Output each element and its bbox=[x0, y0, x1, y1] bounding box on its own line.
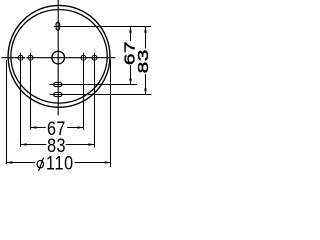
svg-text:83: 83 bbox=[135, 49, 151, 73]
extension line from right-inner hole down to 67 dim bbox=[83, 61, 85, 130]
top slot centerline dash + extension line to right dims bbox=[54, 26, 151, 28]
hole left-outer with tick bbox=[18, 55, 23, 60]
arrow 83 right bottom (down) bbox=[144, 89, 147, 95]
arrow 67 bottom left bbox=[31, 126, 37, 129]
dim line 83 right (vertical) bbox=[145, 27, 147, 95]
outer circle (plate φ110) bbox=[8, 5, 110, 107]
hole right-outer with tick bbox=[92, 55, 97, 60]
bottom slot 2 bbox=[54, 92, 62, 96]
hole right-inner with tick bbox=[81, 55, 86, 60]
arrow 83 bottom right bbox=[89, 143, 95, 146]
bottom slot 1 bbox=[54, 82, 62, 86]
arrow 67 right top (up) bbox=[129, 27, 132, 33]
hole left-inner with tick bbox=[28, 55, 33, 60]
arrow φ110 bottom right bbox=[105, 161, 111, 164]
φ symbol of φ110 (drawn) bbox=[37, 158, 43, 171]
inner circle bbox=[11, 10, 107, 104]
arrow φ110 bottom left bbox=[7, 161, 13, 164]
dim line 67 right (vertical) bbox=[130, 27, 132, 85]
extension line from left-inner hole down to 67 dim bbox=[30, 61, 32, 130]
center circle bbox=[52, 51, 65, 64]
extension line left edge of circle down to φ110 dim bbox=[6, 60, 8, 164]
extension line from left-outer hole down to 83 dim bbox=[20, 61, 22, 148]
dim line 67 bottom bbox=[31, 127, 84, 129]
arrow 67 right bottom (down) bbox=[129, 79, 132, 85]
arrow 67 bottom right bbox=[78, 126, 84, 129]
extension line from right-outer hole down to 83 dim bbox=[94, 61, 96, 148]
bottom slot 2 centerline dash + extension to right bbox=[50, 94, 152, 96]
extension line right edge of circle down to φ110 dim bbox=[110, 60, 112, 167]
arrow 83 bottom left bbox=[21, 143, 27, 146]
svg-text:110: 110 bbox=[46, 152, 74, 173]
arrow 83 right top (up) bbox=[144, 27, 147, 33]
dim line 83 bottom bbox=[21, 144, 95, 146]
top slot bbox=[56, 22, 60, 30]
vertical centerline bbox=[57, 0, 59, 116]
bottom slot 1 centerline dash + extension to right bbox=[50, 84, 137, 86]
horizontal centerline bbox=[2, 57, 116, 59]
dim line φ110 bottom bbox=[7, 162, 111, 164]
